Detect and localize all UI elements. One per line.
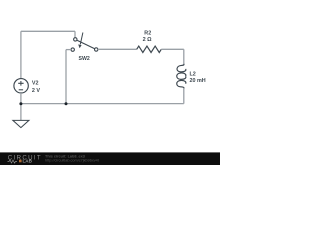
switch SW2 bottom throw terminal [71, 48, 74, 51]
wire stub down to switch top throw [74, 31, 76, 37]
resistor R2 zigzag [137, 46, 162, 52]
wire top-left horizontal (V2 top to switch) [21, 30, 75, 32]
voltage source V2 circle [14, 79, 28, 93]
watermark logo zigzag [8, 160, 18, 163]
svg-text:R2: R2 [144, 31, 151, 37]
svg-text:L2: L2 [190, 72, 196, 78]
ground symbol [13, 120, 29, 127]
V2 minus sign [19, 89, 23, 91]
wire inductor bottom to bottom-right corner [183, 88, 185, 103]
switch SW2 actuator arrowhead [78, 44, 81, 48]
svg-text:SW2: SW2 [79, 56, 90, 62]
switch SW2 lever [77, 40, 95, 49]
V2 plus sign [18, 81, 23, 86]
wire V2 bottom to bottom rail [20, 93, 22, 104]
svg-text:2 Ω: 2 Ω [143, 37, 153, 43]
wire bottom rail [21, 103, 184, 105]
watermark bar [0, 152, 220, 165]
switch SW2 top throw terminal [74, 38, 77, 41]
junction node at V2/ground [19, 102, 22, 105]
watermark logo orange square [19, 160, 22, 163]
wire resistor to top-right corner [161, 48, 184, 50]
svg-text:2 V: 2 V [32, 88, 40, 94]
switch SW2 actuator arrow shaft [80, 33, 83, 45]
wire from bottom throw going left [66, 49, 71, 51]
wire right vertical to inductor top [183, 49, 185, 64]
inductor L2 coil [177, 64, 186, 89]
wire ground lead [20, 104, 22, 121]
svg-text:http://circuitlab.com/c7jkb96x: http://circuitlab.com/c7jkb96xv4t [45, 159, 100, 163]
wire middle vertical down to bottom rail [65, 50, 67, 104]
wire left vertical (top wire down to V2 top) [20, 31, 22, 78]
wire from switch common to resistor [98, 48, 137, 50]
svg-text:LAB: LAB [23, 159, 33, 164]
svg-text:V2: V2 [32, 80, 39, 86]
svg-text:20 mH: 20 mH [190, 78, 206, 84]
switch SW2 common terminal [95, 48, 98, 51]
junction node at switch branch [65, 102, 68, 105]
